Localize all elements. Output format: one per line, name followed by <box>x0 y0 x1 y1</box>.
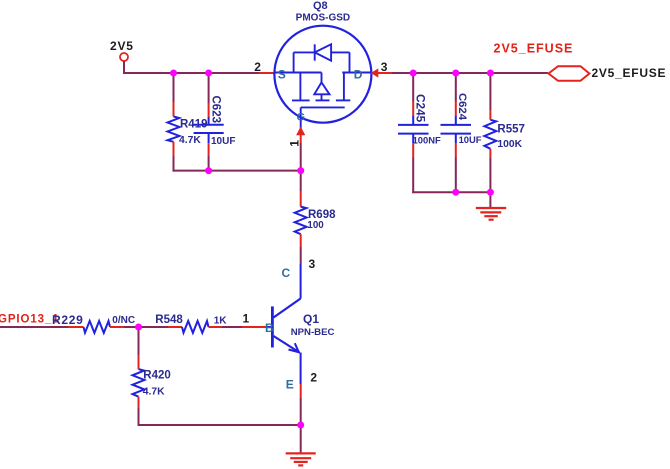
svg-text:1: 1 <box>287 140 301 147</box>
lead C245 top <box>412 101 414 116</box>
wire right bottom rail <box>412 191 491 193</box>
node EFUSE rail / R557 <box>487 70 494 77</box>
svg-text:100: 100 <box>307 220 324 231</box>
Q8 channel segments <box>292 99 310 101</box>
wire R419 branch bottom <box>173 156 175 172</box>
wire R420 branch top <box>138 327 140 355</box>
svg-text:C623: C623 <box>209 96 221 124</box>
pin 1 lead of Q1 <box>242 326 266 328</box>
svg-text:B: B <box>265 321 274 335</box>
svg-text:R548: R548 <box>155 314 183 326</box>
svg-text:0/NC: 0/NC <box>112 315 135 326</box>
ground left <box>286 453 316 465</box>
Q8 body arrow <box>321 73 323 83</box>
resistor R229 <box>52 313 135 333</box>
ground right <box>476 208 506 220</box>
lead R557 top <box>489 110 491 120</box>
pin 1 arrow at Q8 gate <box>296 127 305 136</box>
svg-text:Q8: Q8 <box>313 0 328 12</box>
lead C624 bottom <box>455 143 457 157</box>
wire C623 branch bottom <box>208 156 210 172</box>
svg-text:C624: C624 <box>456 93 468 121</box>
svg-text:2V5_EFUSE: 2V5_EFUSE <box>494 41 574 55</box>
svg-text:PMOS-GSD: PMOS-GSD <box>296 13 350 24</box>
lead R698 bottom <box>300 234 302 247</box>
svg-text:2V5_EFUSE: 2V5_EFUSE <box>592 66 667 80</box>
node EFUSE rail / C624 <box>452 70 459 77</box>
wire EFUSE rail <box>392 72 548 74</box>
lead C624 top <box>455 101 457 116</box>
svg-text:C: C <box>282 266 291 280</box>
wire R420 branch bottom <box>138 408 140 426</box>
capacitor C624 <box>441 93 482 145</box>
svg-text:C245: C245 <box>414 94 428 123</box>
wire GPIO rail <box>0 326 68 328</box>
svg-text:NPN-BEC: NPN-BEC <box>291 327 335 338</box>
svg-text:1K: 1K <box>214 315 228 326</box>
wire R557 branch bottom <box>489 158 491 193</box>
resistor R420 <box>133 369 171 398</box>
body diode of Q8 <box>293 52 295 72</box>
resistor R698 <box>295 207 336 235</box>
Q8 source structure <box>275 72 322 74</box>
node bottom-left rail / gate wire <box>297 167 304 174</box>
wire C623 branch top <box>208 72 210 103</box>
wire R229 to R548 <box>124 326 168 328</box>
pin 3 lead <box>372 72 393 74</box>
svg-text:2V5: 2V5 <box>110 39 134 53</box>
svg-text:E: E <box>286 378 294 392</box>
lead R548 right <box>209 326 223 328</box>
svg-text:3: 3 <box>309 257 316 271</box>
svg-text:S: S <box>278 67 286 81</box>
pin 2 lead of Q8 <box>259 72 275 74</box>
svg-text:R557: R557 <box>497 124 525 136</box>
svg-text:4.7K: 4.7K <box>179 135 201 146</box>
lead C245 bottom <box>412 143 414 157</box>
lead R229 right <box>110 326 124 328</box>
svg-text:100K: 100K <box>497 139 522 150</box>
node 2V5 rail / R419 <box>170 70 177 77</box>
transistor Q8 PMOS <box>274 0 371 130</box>
wire R557 branch top <box>489 72 491 110</box>
svg-text:D: D <box>354 67 363 81</box>
lead C623 top <box>208 103 210 117</box>
capacitor C623 <box>194 96 236 148</box>
wire R548 to Q1 <box>222 326 242 328</box>
resistor R557 <box>484 120 525 150</box>
wire bottom rail <box>138 424 301 426</box>
svg-text:10UF: 10UF <box>211 136 235 147</box>
Q8 gate <box>301 106 345 108</box>
wire ground stub right <box>489 192 491 208</box>
node bottom-left rail / C623 <box>205 167 212 174</box>
pin 3 arrow at Q8 drain <box>371 68 379 77</box>
capacitor C245 <box>398 94 441 145</box>
svg-text:2: 2 <box>254 60 261 74</box>
wire gate to junction <box>300 143 302 191</box>
wire bottom-left rail <box>173 170 302 172</box>
svg-text:GPIO13_1: GPIO13_1 <box>0 314 60 326</box>
offpage port 2V5_EFUSE <box>549 66 667 81</box>
lead C623 bottom <box>208 143 210 156</box>
pin 1 lead <box>300 135 302 143</box>
resistor R419 <box>168 117 208 147</box>
node 2V5 rail / C623 <box>205 70 212 77</box>
svg-text:100NF: 100NF <box>413 134 441 145</box>
node EFUSE rail / C245 <box>410 70 417 77</box>
svg-text:G: G <box>297 112 306 124</box>
transistor Q1 NPN <box>265 264 334 392</box>
node bottom rail / emitter <box>297 422 304 429</box>
wire C245 branch top <box>412 72 414 101</box>
lead R420 bottom <box>138 397 140 408</box>
svg-text:2: 2 <box>310 371 317 385</box>
node right rail / C624 <box>452 189 459 196</box>
svg-text:R420: R420 <box>143 369 171 381</box>
wire 2V5 vertical stub <box>123 61 125 73</box>
wire 2V5 rail <box>123 72 259 74</box>
wire R698 to Q1 collector <box>300 247 302 264</box>
lead R419 top <box>173 102 175 117</box>
lead R548 left <box>168 326 182 328</box>
lead R698 top <box>300 191 302 207</box>
wire C624 branch bottom <box>455 157 457 193</box>
node right rail / R557 <box>487 189 494 196</box>
lead R229 left <box>68 326 84 328</box>
wire C245 branch bottom <box>412 157 414 193</box>
lead Q1 emitter <box>300 384 302 398</box>
lead R557 bottom <box>489 149 491 158</box>
wire junction to ground <box>300 425 302 453</box>
wire C624 branch top <box>455 72 457 101</box>
svg-text:10UF: 10UF <box>459 134 482 145</box>
wire emitter to junction <box>300 398 302 425</box>
node GPIO rail / R420 <box>135 324 142 331</box>
svg-text:R229: R229 <box>52 313 84 327</box>
svg-text:3: 3 <box>381 60 388 74</box>
Q8 drain structure <box>342 72 371 74</box>
lead R419 bottom <box>173 142 175 156</box>
resistor R548 <box>155 314 227 333</box>
power symbol 2V5 <box>110 39 134 61</box>
wire R419 branch top <box>173 72 175 102</box>
lead R420 top <box>138 355 140 369</box>
svg-text:1: 1 <box>243 312 250 326</box>
svg-text:4.7K: 4.7K <box>143 387 165 398</box>
svg-text:Q1: Q1 <box>303 312 319 326</box>
